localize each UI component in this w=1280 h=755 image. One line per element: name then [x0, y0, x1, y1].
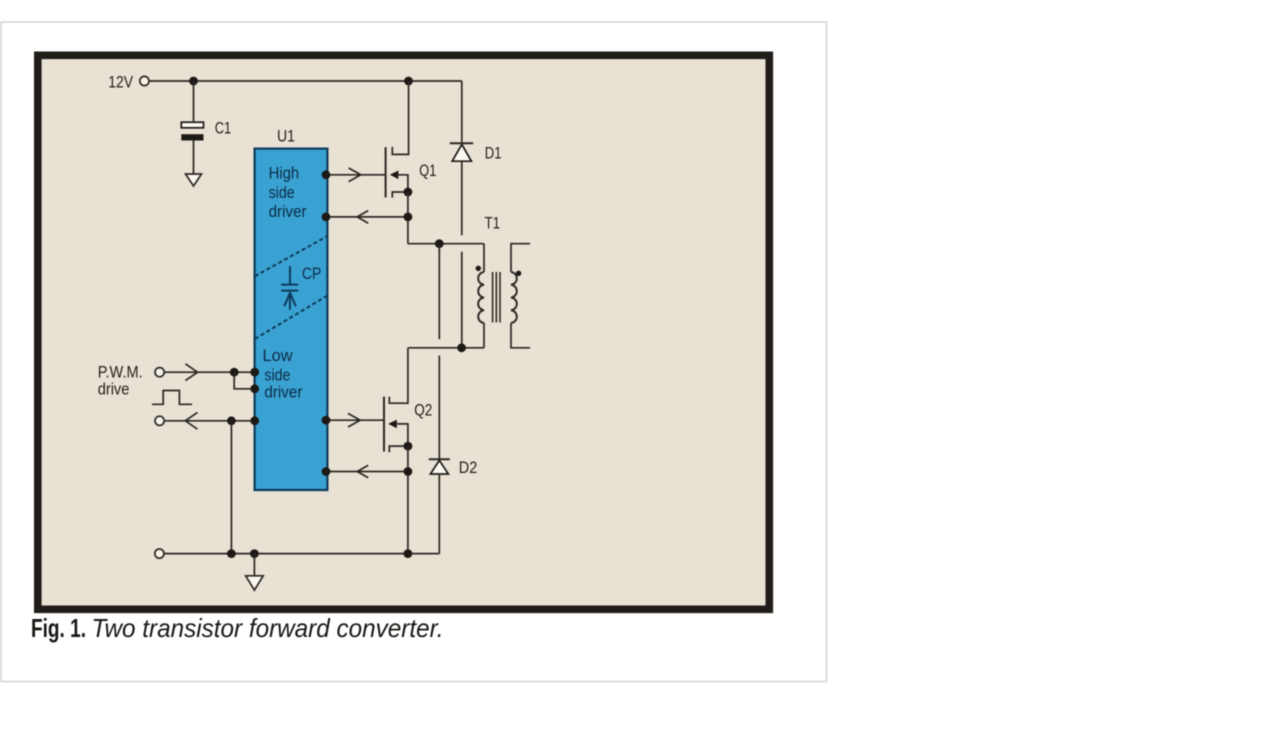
- wire D1 anode to primary bottom: [461, 252, 463, 348]
- node primary bottom: [457, 343, 466, 352]
- svg-text:High: High: [269, 164, 300, 183]
- svg-text:driver: driver: [269, 202, 307, 221]
- terminal 12V: [140, 76, 149, 85]
- wire U1 high return: [326, 216, 408, 218]
- phase dot primary: [476, 266, 481, 271]
- svg-text:C1: C1: [215, 119, 232, 138]
- svg-text:D2: D2: [459, 458, 478, 477]
- wire Q1 drain: [392, 81, 408, 154]
- node Q1 drain rail: [404, 77, 413, 86]
- svg-text:Fig. 1.: Fig. 1.: [31, 613, 86, 643]
- transistor Q2: [384, 397, 408, 453]
- terminal PWM input: [155, 368, 164, 377]
- schematic frame: [38, 55, 770, 609]
- capacitor CP symbol: [281, 266, 298, 310]
- node rail ground: [250, 549, 259, 558]
- wire ground stub: [253, 554, 255, 576]
- svg-text:CP: CP: [302, 264, 321, 283]
- node rail pwm: [227, 549, 236, 558]
- svg-text:D1: D1: [485, 143, 502, 162]
- label High side driver: [269, 164, 307, 221]
- arrow right on Q2 gate wire: [348, 413, 360, 427]
- pin U1 pwm in: [250, 368, 259, 377]
- wire ground rail: [164, 553, 439, 555]
- node Q2 source: [404, 442, 413, 451]
- dashed isolation line upper: [255, 236, 328, 276]
- node Q2 source return: [404, 467, 413, 476]
- arrow left on low return wire: [357, 465, 368, 478]
- phase dot secondary: [516, 271, 521, 276]
- wire Q2 drain up: [389, 348, 408, 403]
- wire PWM input: [165, 371, 255, 373]
- pin U1 high return: [322, 213, 331, 222]
- pin U1 high out: [322, 170, 331, 179]
- IC U1 driver block: [255, 149, 328, 490]
- label Low side driver: [263, 346, 303, 401]
- svg-text:U1: U1: [277, 126, 295, 145]
- node C1 top: [189, 77, 198, 86]
- ground below C1: [186, 174, 202, 186]
- svg-text:Two transistor forward convert: Two transistor forward converter.: [92, 613, 444, 643]
- wire Q2 source down: [407, 446, 409, 553]
- wire U1 to Q2 gate: [326, 419, 384, 421]
- svg-text:T1: T1: [485, 213, 501, 232]
- pin U1 pwm in 2: [250, 384, 259, 393]
- wire Q1 source down: [407, 192, 409, 244]
- diode D2: [429, 356, 450, 554]
- pin U1 low return: [322, 467, 331, 476]
- wire U1 low return: [326, 471, 408, 473]
- svg-text:side: side: [269, 183, 295, 202]
- svg-text:drive: drive: [98, 379, 130, 398]
- transformer T1: [478, 244, 530, 348]
- pin U1 low out: [322, 416, 331, 425]
- transistor Q1: [386, 147, 408, 197]
- ground symbol: [246, 576, 264, 590]
- wire return branch down: [230, 421, 232, 554]
- svg-text:driver: driver: [264, 382, 302, 401]
- wire C1 to ground: [193, 141, 195, 174]
- node Q1 source return: [404, 213, 413, 222]
- arrow left on high return wire: [357, 211, 368, 224]
- capacitor C1: [181, 122, 203, 140]
- terminal PWM return: [155, 416, 164, 425]
- page border: [1, 22, 827, 682]
- node PWM branch: [230, 368, 239, 377]
- wire U1 to Q1 gate: [326, 174, 386, 176]
- svg-text:Q1: Q1: [419, 161, 436, 180]
- arrow right on Q1 gate wire: [349, 168, 361, 182]
- wire primary bottom: [408, 347, 484, 349]
- diode D1: [450, 81, 473, 235]
- arrow left on PWM return: [185, 412, 197, 429]
- arrow right on PWM input: [185, 364, 197, 381]
- node Q1 source: [404, 188, 413, 197]
- node primary top: [435, 239, 444, 248]
- wire 12V rail: [149, 80, 462, 82]
- wire D2 cathode to primary top: [438, 244, 440, 340]
- wire C1 branch: [193, 81, 195, 122]
- label P.W.M. drive: [98, 362, 143, 398]
- dashed isolation line lower: [255, 296, 328, 339]
- node rail Q2: [404, 549, 413, 558]
- wire source to transformer: [408, 243, 484, 245]
- wire PWM return: [165, 420, 255, 422]
- svg-text:Low: Low: [263, 346, 294, 365]
- svg-text:12V: 12V: [108, 73, 133, 92]
- terminal ground rail: [155, 549, 164, 558]
- wire PWM branch to pin2: [234, 372, 255, 389]
- svg-text:Q2: Q2: [414, 401, 432, 420]
- pin U1 return: [250, 416, 259, 425]
- node PWM return branch: [227, 416, 236, 425]
- pulse waveform symbol: [152, 391, 192, 405]
